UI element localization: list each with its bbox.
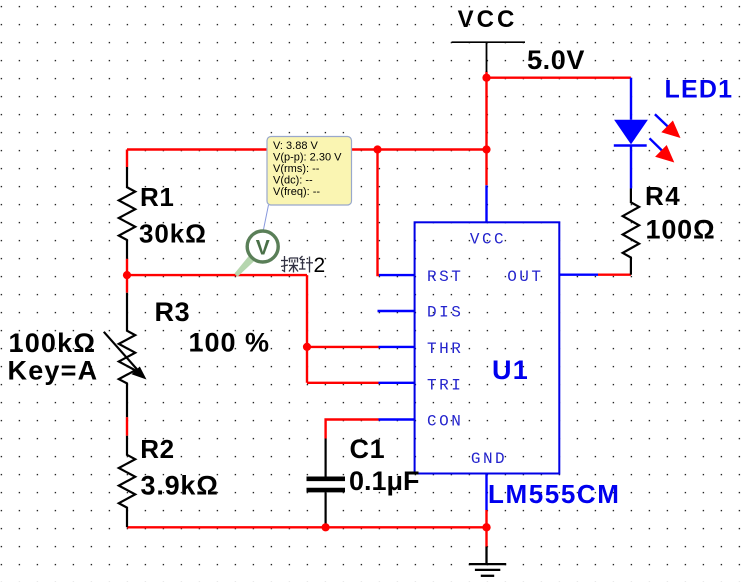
svg-text:V(dc): --: V(dc): -- bbox=[273, 174, 313, 186]
svg-text:DIS: DIS bbox=[427, 303, 463, 321]
svg-text:30kΩ: 30kΩ bbox=[139, 218, 207, 248]
svg-text:LED1: LED1 bbox=[665, 76, 734, 104]
svg-text:VCC: VCC bbox=[458, 6, 518, 33]
svg-text:U1: U1 bbox=[492, 355, 529, 385]
svg-text:0.1μF: 0.1μF bbox=[349, 466, 420, 496]
svg-text:RST: RST bbox=[427, 268, 463, 286]
svg-text:V(freq): --: V(freq): -- bbox=[273, 186, 320, 198]
svg-text:100Ω: 100Ω bbox=[646, 214, 716, 244]
svg-text:V(rms): --: V(rms): -- bbox=[273, 163, 320, 175]
svg-text:Key=A: Key=A bbox=[8, 355, 99, 385]
svg-text:2: 2 bbox=[314, 254, 326, 277]
svg-text:V(p-p): 2.30 V: V(p-p): 2.30 V bbox=[273, 152, 342, 164]
svg-text:R2: R2 bbox=[140, 434, 174, 464]
svg-text:CON: CON bbox=[427, 412, 463, 430]
svg-text:THR: THR bbox=[427, 340, 463, 358]
svg-text:C1: C1 bbox=[350, 434, 386, 464]
svg-text:V: V bbox=[256, 237, 270, 260]
svg-text:R4: R4 bbox=[645, 181, 681, 211]
svg-text:VCC: VCC bbox=[470, 231, 506, 249]
svg-text:R1: R1 bbox=[140, 182, 174, 212]
svg-text:100kΩ: 100kΩ bbox=[9, 328, 97, 358]
svg-text:LM555CM: LM555CM bbox=[488, 479, 621, 509]
svg-text:3.9kΩ: 3.9kΩ bbox=[141, 471, 219, 501]
svg-text:OUT: OUT bbox=[507, 268, 543, 286]
svg-text:V: 3.88 V: V: 3.88 V bbox=[273, 140, 319, 152]
svg-text:5.0V: 5.0V bbox=[527, 45, 585, 75]
svg-text:GND: GND bbox=[471, 450, 507, 468]
svg-text:R3: R3 bbox=[155, 297, 191, 327]
svg-text:TRI: TRI bbox=[427, 376, 463, 394]
svg-text:100 %: 100 % bbox=[189, 328, 271, 358]
